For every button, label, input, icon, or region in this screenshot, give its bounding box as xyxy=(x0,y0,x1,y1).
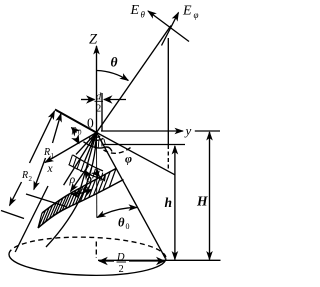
H dimension line xyxy=(209,132,211,260)
svg-text:θ: θ xyxy=(118,216,125,230)
svg-text:2: 2 xyxy=(29,175,33,183)
svg-text:2: 2 xyxy=(119,264,124,275)
R2 dimension line lower part xyxy=(10,182,22,206)
drop line from C solid part xyxy=(167,38,169,145)
ground base line xyxy=(98,259,221,261)
drop line dashed part xyxy=(167,145,169,171)
dashed phi arc xyxy=(104,147,132,154)
small turn hatching xyxy=(87,139,106,147)
base ellipse front arc xyxy=(9,254,166,275)
svg-text:y: y xyxy=(184,123,192,138)
rho dimension line xyxy=(71,166,89,192)
theta arc xyxy=(97,71,128,81)
cone axis below O xyxy=(96,133,98,218)
h dimension line xyxy=(174,146,176,260)
rho0 arrow down xyxy=(76,138,79,144)
d/2 dimension right arrow xyxy=(104,99,126,101)
svg-text:0: 0 xyxy=(78,129,82,137)
main spiral band outer edge xyxy=(38,180,124,229)
small spiral turn outer arc xyxy=(83,142,112,152)
feed gap vertical line xyxy=(101,93,103,131)
rho0 arrow up xyxy=(72,128,77,133)
D/2 dimension right arrow xyxy=(129,260,165,262)
svg-text:ρ: ρ xyxy=(71,124,77,135)
perpendicular baseline through apex xyxy=(55,110,98,134)
label rho0 xyxy=(71,124,82,137)
H top cap xyxy=(195,130,220,132)
theta0 arc xyxy=(97,208,137,218)
svg-text:E: E xyxy=(130,3,140,18)
azimuth diagonal O to P xyxy=(97,133,175,175)
extension line M1 xyxy=(26,194,66,207)
svg-text:φ: φ xyxy=(194,10,199,20)
spiral arm edge to rim xyxy=(46,133,97,248)
R1 dimension line lower part xyxy=(34,158,46,190)
label d/2 xyxy=(96,92,102,115)
label D/2 xyxy=(116,252,125,275)
label R1 xyxy=(43,147,55,160)
label R2 xyxy=(21,170,33,183)
x axis arrow xyxy=(45,133,97,163)
svg-text:x: x xyxy=(47,163,54,175)
observation ray O to C xyxy=(97,26,172,133)
base ellipse back arc (dashed) xyxy=(9,237,166,258)
fan radial f4 xyxy=(76,133,97,155)
R1 dimension line upper part xyxy=(53,114,62,144)
base center axis mark (dashed) xyxy=(95,242,97,259)
svg-text:α: α xyxy=(83,183,90,195)
svg-text:R: R xyxy=(43,147,50,158)
fan radial f1 xyxy=(64,133,97,186)
R2 dimension line upper part xyxy=(30,111,55,163)
svg-text:D: D xyxy=(116,252,125,263)
cone left silhouette xyxy=(15,186,48,252)
main band hatching xyxy=(38,169,116,229)
svg-text:0: 0 xyxy=(126,222,130,231)
svg-text:H: H xyxy=(196,194,208,209)
delta arrows xyxy=(85,171,88,176)
svg-text:2: 2 xyxy=(96,104,101,115)
medium band hatching xyxy=(69,155,105,182)
svg-text:θ: θ xyxy=(111,55,118,70)
E_theta vector xyxy=(148,11,189,42)
svg-text:θ: θ xyxy=(141,10,146,20)
y axis xyxy=(101,130,183,132)
main spiral band inner edge xyxy=(42,169,116,214)
svg-text:Z: Z xyxy=(89,32,98,48)
extension line M2 xyxy=(1,211,24,219)
alpha arc xyxy=(72,190,92,195)
E_phi vector xyxy=(162,13,179,46)
svg-text:E: E xyxy=(182,4,192,19)
medium spiral band upper edge xyxy=(73,155,103,171)
svg-text:φ: φ xyxy=(125,152,132,166)
D/2 dimension left arrow xyxy=(99,260,114,262)
Z axis xyxy=(96,46,98,133)
innermost tiny arc xyxy=(93,136,100,137)
label theta0 xyxy=(118,216,130,232)
fan radial f5 xyxy=(85,133,97,162)
medium spiral band lower edge xyxy=(69,165,105,181)
fan radial f2 xyxy=(78,133,96,197)
small spiral turn inner arc xyxy=(89,138,103,141)
svg-text:d: d xyxy=(96,92,102,103)
svg-text:ρ: ρ xyxy=(69,172,76,186)
d/2 dimension left arrow xyxy=(81,99,95,101)
svg-text:R: R xyxy=(21,170,28,181)
svg-text:h: h xyxy=(165,195,173,210)
horizontal reference line2 (cone top level) xyxy=(103,144,185,146)
cone right silhouette xyxy=(97,133,166,259)
